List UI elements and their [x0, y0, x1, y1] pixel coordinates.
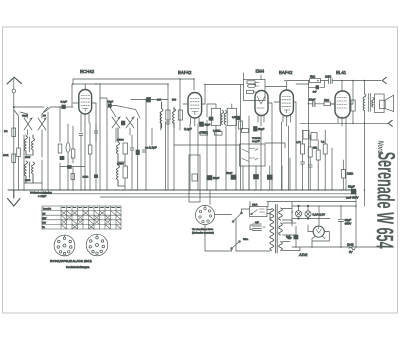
selector contacts — [252, 209, 265, 214]
resistor R20 — [66, 143, 70, 153]
bandfilter 1 trimmer T2 — [38, 114, 46, 135]
bus line 3 — [100, 196, 356, 198]
wire lamp top — [292, 206, 356, 219]
wire AZ41 loop — [308, 225, 329, 248]
tube EAF42 second grids — [282, 97, 291, 114]
coil L2 secondary — [32, 135, 35, 155]
switch S3 mains — [232, 242, 240, 252]
svg-text:100k: 100k — [3, 154, 9, 157]
core L3 — [29, 162, 31, 178]
svg-text:EAF42: EAF42 — [178, 70, 192, 75]
svg-text:und 450V: und 450V — [346, 196, 358, 200]
capacitor C14 — [301, 162, 305, 164]
wire C1 leads — [58, 106, 73, 108]
capacitor C3 — [94, 124, 98, 142]
capacitor C10 50pF — [254, 127, 258, 132]
capacitor C11 1M — [321, 79, 382, 84]
tube EM4 envelope — [255, 91, 268, 116]
wire C13 loop — [308, 81, 324, 88]
svg-text:EL41: EL41 — [336, 70, 347, 75]
main bus line — [8, 189, 356, 191]
tube EAF42 first envelope — [188, 93, 202, 119]
power transformer core — [276, 205, 278, 254]
power transformer secondary heater1 — [279, 223, 283, 235]
wire C20 vertical — [340, 225, 342, 248]
wire EM4 drops — [241, 73, 273, 190]
svg-text:(Zerhacker pruefen!): (Zerhacker pruefen!) — [192, 231, 214, 234]
tube EL41 envelope — [335, 91, 350, 118]
wire bus right vertical — [355, 190, 357, 247]
resistor R8 — [239, 121, 243, 129]
bus line 4 — [267, 201, 356, 203]
svg-text:5kΩ: 5kΩ — [310, 75, 316, 79]
capacitor C6 blob — [136, 150, 139, 155]
capacitor C24 50pF blob — [200, 122, 204, 126]
svg-text:0,3A 6,3V: 0,3A 6,3V — [313, 212, 326, 216]
output transformer primary — [363, 94, 366, 111]
capacitor C18 50nF — [231, 175, 236, 179]
wire filter1 top entry — [20, 107, 48, 114]
connector chevron bottom — [388, 120, 392, 126]
resistor R22 — [88, 145, 92, 154]
coil L4 — [32, 162, 35, 183]
table band switch — [42, 206, 121, 229]
svg-text:1MΩ: 1MΩ — [347, 172, 354, 176]
capacitor antenna series — [12, 89, 15, 93]
power transformer secondary heater2 — [279, 242, 283, 251]
resistor R21 — [71, 149, 75, 158]
rectifier internals — [316, 226, 321, 233]
coil L7 IF1 — [160, 102, 163, 128]
wire C19 — [295, 226, 297, 248]
svg-text:50nF: 50nF — [226, 171, 233, 175]
node lamp dots — [298, 205, 300, 207]
svg-text:500: 500 — [172, 99, 177, 102]
capacitor C18b blob — [254, 175, 259, 179]
capacitor C5 — [130, 135, 134, 190]
IF can box 1 — [211, 108, 220, 125]
core L1 — [29, 137, 31, 152]
resistor R3 — [58, 144, 62, 153]
wire IF2 drops — [207, 104, 241, 190]
coil L5 osc — [117, 128, 120, 162]
capacitor C4 blob — [147, 98, 151, 103]
svg-text:Bereich: Bereich — [43, 208, 52, 211]
power transformer secondary HT — [279, 208, 283, 220]
wire tone drops — [174, 143, 285, 190]
tube EM4 pins — [258, 116, 264, 127]
wire filter1 verticals — [14, 110, 48, 190]
resistor R18 — [323, 144, 327, 154]
capacitor C15 — [308, 165, 312, 167]
wire y166 tie — [60, 166, 85, 168]
socket EM4 circle — [86, 234, 108, 256]
switch box tone — [240, 144, 266, 166]
resistor R10 470k horizontal — [215, 132, 223, 136]
svg-text:ECH42: ECH42 — [80, 69, 95, 74]
svg-text:50nF: 50nF — [309, 97, 316, 101]
tube EAF42 first grids — [190, 99, 199, 115]
power transformer primary — [270, 209, 274, 251]
wire ECH42 drops — [85, 84, 100, 190]
switch S2 contacts — [215, 209, 242, 251]
lamp LP1 — [295, 211, 301, 217]
resistor R2 60kΩ — [12, 154, 16, 163]
resistor R6 — [166, 110, 170, 120]
wire top bus y79 — [73, 79, 194, 90]
wire antenna lead — [13, 79, 15, 190]
small box K2 — [311, 133, 317, 141]
rectifier pins — [312, 232, 326, 239]
resistor R10b horizontal — [242, 129, 249, 133]
bandfilter 2 trimmer T3 — [112, 117, 120, 128]
capacitor C25 blob — [121, 121, 125, 125]
capacitor C21 blob — [68, 166, 72, 169]
capacitor C13 blob — [316, 86, 319, 89]
connector chevron top — [382, 77, 386, 83]
wire mid verticals — [146, 79, 180, 190]
tube ECH42 pins — [73, 84, 96, 124]
voltage selector box — [250, 207, 268, 217]
wire filter2 frame — [100, 98, 140, 190]
resistor R9 470k horizontal — [200, 132, 208, 136]
wire right mid verticals — [303, 130, 332, 190]
capacitor C26 blob top — [108, 104, 111, 107]
resistor R16 — [308, 147, 312, 157]
svg-text:470kΩ: 470kΩ — [199, 131, 207, 135]
svg-text:ca.3,3µF: ca.3,3µF — [145, 146, 157, 150]
svg-text:0,5M: 0,5M — [232, 116, 238, 119]
wire EM4 box internals — [254, 82, 260, 92]
wire EAF42-2 drops — [282, 102, 297, 190]
capacitor C16 50uF — [351, 189, 355, 194]
svg-text:AZ41: AZ41 — [298, 253, 308, 257]
tube ECH42 grids — [81, 96, 90, 112]
capacitor C22 — [79, 134, 83, 191]
bus line 2 — [42, 193, 356, 195]
speaker magnet — [380, 100, 386, 108]
coil L3 — [25, 161, 28, 183]
wire output top — [352, 81, 354, 101]
coil L1 — [25, 135, 28, 155]
svg-text:EAF42: EAF42 — [279, 70, 293, 75]
coil L7b — [173, 109, 176, 129]
coil L6 osc — [117, 165, 120, 186]
resistor R6b — [178, 110, 182, 120]
pickup inner — [192, 174, 198, 181]
resistor R11a — [247, 81, 255, 84]
svg-text:EM4: EM4 — [256, 69, 265, 74]
svg-text:100: 100 — [157, 99, 162, 102]
wire B+ vertical — [364, 81, 366, 207]
svg-text:0,1: 0,1 — [321, 141, 325, 144]
capacitor C1 50pF — [62, 105, 66, 109]
lamp LP2 — [305, 211, 311, 217]
wire antenna to input filter — [14, 107, 58, 112]
wire top bus y84 — [72, 84, 168, 190]
svg-text:50µF: 50µF — [348, 185, 355, 189]
EM4 feed box — [244, 80, 266, 101]
speaker coil secondary — [372, 98, 374, 108]
svg-text:MW: MW — [42, 217, 47, 220]
wire y84 mid-right — [205, 85, 287, 105]
wire C4 — [131, 99, 168, 101]
svg-text:8nF: 8nF — [288, 237, 293, 240]
resistor R19 — [341, 170, 345, 179]
coil L8 — [221, 111, 224, 125]
svg-text:10kΩ: 10kΩ — [83, 176, 89, 179]
svg-text:1kΩ: 1kΩ — [324, 98, 329, 102]
svg-text:Serenade W 654: Serenade W 654 — [370, 151, 399, 249]
motor internals — [199, 205, 212, 222]
tube EL41 grids — [337, 98, 347, 109]
svg-text:0,1µF: 0,1µF — [61, 101, 68, 104]
IF can box 2 — [227, 108, 236, 125]
resistor R11b oval — [248, 84, 256, 87]
small box K1 — [303, 131, 309, 140]
svg-text:4nF: 4nF — [313, 90, 318, 93]
wire speaker bottom bus — [300, 122, 389, 124]
resistor R12 5k — [310, 79, 321, 83]
svg-text:(2x6): (2x6) — [347, 243, 354, 247]
wire bottom rail — [292, 246, 394, 248]
wire x136 — [137, 118, 139, 190]
speaker cone — [385, 95, 393, 111]
tube EAF42 second envelope — [280, 90, 293, 116]
phono pickup box — [189, 155, 200, 202]
vertical brand text — [370, 140, 399, 249]
svg-text:50nF: 50nF — [213, 176, 220, 180]
table cross marks — [61, 211, 121, 229]
svg-text:GDa: GDa — [243, 238, 249, 241]
output transformer core — [369, 94, 371, 112]
resistor R15 — [301, 144, 305, 154]
capacitor C19 blob — [294, 235, 298, 239]
svg-text:mag.W: mag.W — [252, 140, 260, 143]
svg-text:50pF: 50pF — [108, 101, 114, 104]
bandfilter 1 trimmer T1 — [24, 114, 32, 135]
resistor R14 cathode — [351, 100, 355, 111]
tube EL41 pins — [330, 81, 353, 127]
wire filter1 bottom — [24, 155, 42, 183]
capacitor C18c blob — [267, 175, 272, 179]
svg-text:2000: 2000 — [25, 156, 31, 159]
wire mains drops — [205, 209, 270, 251]
resistor R17 — [316, 150, 320, 160]
svg-text:Sockelschaltungen: Sockelschaltungen — [66, 265, 90, 269]
tube EAF42 second pins — [274, 102, 296, 126]
svg-text:0,1µF: 0,1µF — [184, 127, 192, 131]
resistor R23 — [17, 148, 21, 157]
wire left components — [68, 123, 90, 190]
antenna A1 — [7, 77, 22, 84]
wire transformer taps — [267, 209, 300, 251]
svg-text:450V: 450V — [345, 221, 352, 225]
switch contacts tone — [242, 149, 258, 162]
svg-text:50pF: 50pF — [205, 124, 211, 127]
resistor R11c — [247, 90, 254, 93]
socket ECH42 circle — [54, 235, 75, 256]
ground arrow earth — [8, 190, 21, 206]
tube EM4 internals — [257, 96, 265, 108]
speaker frame — [375, 94, 385, 113]
capacitor C17 50nF — [207, 176, 212, 180]
table header ticks — [62, 207, 120, 209]
capacitor C9a blob — [209, 117, 213, 120]
svg-text:⌀ 13pF: ⌀ 13pF — [38, 195, 47, 198]
wire stubs below bus — [210, 190, 319, 226]
motor M circle — [195, 205, 214, 224]
capacitor C9b blob — [236, 116, 240, 119]
svg-text:1M: 1M — [4, 130, 7, 133]
svg-text:TA: TA — [42, 226, 45, 229]
svg-text:1MΩ: 1MΩ — [325, 75, 332, 79]
svg-text:4,7k: 4,7k — [296, 141, 301, 144]
capacitor C7 — [166, 122, 170, 124]
wire R19 — [342, 160, 344, 190]
svg-text:ECH42,EAF42,EL41,AZ41 (8MU): ECH42,EAF42,EL41,AZ41 (8MU) — [50, 259, 92, 263]
resistor R4 padder — [123, 143, 128, 154]
resistor R5 — [123, 166, 128, 178]
capacitor C20 32uF — [338, 206, 343, 225]
wire EAF42-2 top — [287, 81, 310, 91]
svg-text:GBA: GBA — [252, 204, 258, 207]
wire EAF42 drops — [190, 124, 198, 190]
bandfilter 2 trimmer T4 — [126, 117, 134, 128]
wire EL41 cathode — [346, 100, 353, 190]
resistor R24 — [71, 174, 75, 180]
heater symbol 2x6 — [349, 247, 355, 250]
node antenna junction — [13, 106, 14, 107]
resistor R1 1MΩ — [12, 128, 16, 137]
wire blob drops — [256, 158, 290, 190]
svg-text:0,1MΩ: 0,1MΩ — [213, 130, 221, 133]
rectifier AZ41 envelope — [313, 226, 324, 237]
tube EAF42 first pins — [183, 104, 205, 126]
capacitor C23 4nF pair — [250, 221, 265, 231]
resistor R13 1k — [324, 102, 330, 106]
capacitor C27 blob — [94, 175, 97, 178]
wire osc bottoms — [118, 154, 125, 190]
svg-text:4nF: 4nF — [255, 221, 260, 224]
capacitor C2 blob — [60, 156, 64, 159]
capacitor C12 50nF plates — [313, 101, 315, 106]
wire vertical feeder x60 — [59, 107, 61, 190]
coil L9 — [224, 111, 227, 125]
svg-text:5V: 5V — [349, 250, 353, 254]
wire EL41 grid feed — [296, 84, 335, 190]
svg-text:50pF: 50pF — [258, 127, 265, 131]
tube ECH42 envelope — [79, 90, 92, 115]
capacitor C8 — [142, 150, 146, 152]
